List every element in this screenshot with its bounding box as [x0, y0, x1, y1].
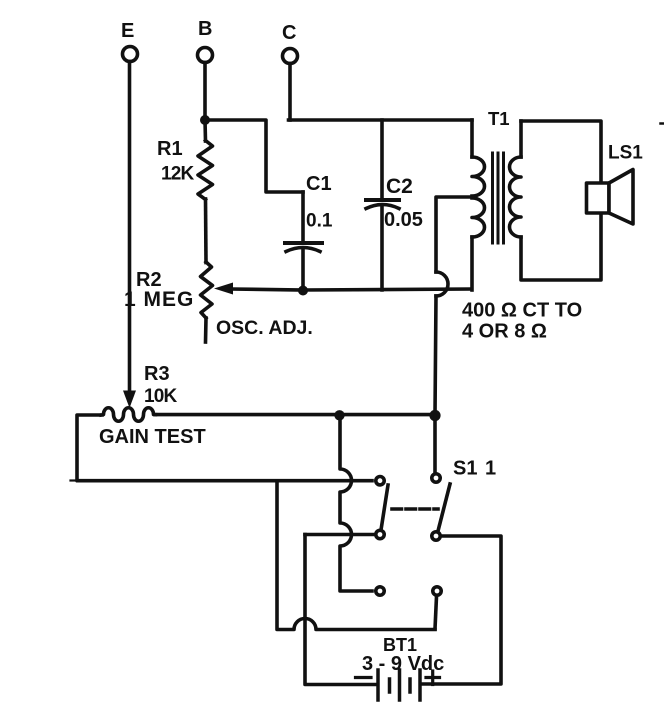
svg-text:R3: R3	[144, 363, 170, 385]
T1 core	[493, 153, 504, 243]
svg-text:C: C	[282, 22, 296, 44]
svg-text:B: B	[198, 18, 212, 40]
S1 contact bottom-right	[433, 587, 441, 595]
wire top rail	[289, 118, 473, 122]
scan speck right edge	[661, 122, 664, 125]
wire secondary loop	[521, 121, 601, 280]
T1 secondary winding	[510, 157, 522, 237]
T1 primary winding bottom half	[472, 198, 484, 237]
svg-text:400 Ω CT TO: 400 Ω CT TO	[462, 300, 582, 322]
R2 wiper arrow	[214, 283, 233, 295]
resistor R1	[157, 138, 213, 200]
svg-text:1: 1	[485, 458, 496, 480]
capacitor C2	[366, 120, 423, 290]
wire main rail R3 to S1	[155, 413, 435, 417]
wire CT node to top-right contact	[433, 415, 437, 472]
S1 contact middle-left	[376, 530, 384, 538]
wire C down to top rail	[288, 64, 292, 121]
T1 primary bottom lead to bottom rail	[470, 237, 474, 290]
wire B to node	[203, 63, 207, 121]
svg-text:4 OR 8 Ω: 4 OR 8 Ω	[462, 321, 547, 343]
svg-text:1 MEG: 1 MEG	[124, 288, 194, 311]
wire R2 bottom stub	[204, 318, 208, 342]
wire E to R3 wiper	[128, 62, 132, 394]
wire B node to C1	[205, 120, 303, 192]
svg-text:12K: 12K	[161, 164, 195, 185]
speaker LS1	[587, 143, 644, 225]
svg-text:10K: 10K	[144, 386, 178, 407]
svg-text:T1: T1	[488, 108, 510, 129]
node B junction dot	[200, 115, 210, 125]
arrowhead R3 wiper	[123, 391, 136, 409]
svg-text:R1: R1	[157, 138, 183, 160]
wire bottom rail	[303, 289, 471, 290]
potentiometer R2	[124, 262, 213, 318]
wire middle-right to battery plus	[421, 536, 501, 684]
node junction dot left	[334, 410, 344, 420]
svg-text:0.05: 0.05	[384, 209, 423, 231]
terminal B	[198, 18, 213, 63]
terminal C	[282, 22, 298, 64]
S1 mechanical link dashed	[392, 507, 438, 511]
svg-text:GAIN TEST: GAIN TEST	[99, 426, 206, 448]
svg-text:E: E	[121, 20, 134, 42]
svg-text:OSC. ADJ.: OSC. ADJ.	[216, 317, 313, 339]
capacitor C1	[285, 173, 333, 291]
wire R3 left side down	[77, 415, 372, 481]
wire middle-left contact down to battery minus	[305, 535, 377, 685]
svg-text:C1: C1	[306, 173, 332, 195]
S1 contact top-right	[432, 474, 440, 482]
S1 left arm	[381, 485, 388, 530]
T1 primary winding top half	[472, 157, 484, 196]
T1 primary top lead	[470, 120, 474, 157]
wire middle-left contact	[305, 533, 373, 537]
T1 secondary top lead	[519, 121, 523, 157]
S1 contact top-left	[376, 477, 384, 485]
wire bottom-right contact down	[435, 597, 437, 630]
potentiometer R3	[99, 363, 206, 448]
svg-text:S1: S1	[453, 458, 477, 480]
node junction dot right	[429, 410, 440, 421]
svg-text:C2: C2	[386, 175, 413, 198]
node C1 bottom junction dot	[298, 286, 308, 296]
wire wiper to bottom rail	[231, 289, 303, 290]
S1 right arm	[438, 484, 450, 531]
svg-text:0.1: 0.1	[306, 211, 333, 232]
S1 contact bottom-left	[376, 587, 384, 595]
wire R1 to R2	[204, 199, 208, 263]
wire S1 left pole vertical with hops	[340, 415, 372, 591]
wire CT down to S1	[435, 296, 436, 415]
battery BT1	[356, 635, 445, 700]
svg-text:LS1: LS1	[608, 143, 643, 164]
wire CT hop over bottom rail	[436, 272, 448, 296]
T1 center tap wire	[436, 197, 473, 272]
scan tick left of GAIN TEST corner	[71, 479, 77, 481]
wire R1 top lead	[203, 120, 207, 141]
wire lower return with hop	[277, 481, 435, 630]
terminal E	[121, 20, 138, 62]
svg-text:BT1: BT1	[383, 635, 417, 655]
S1 contact middle-right	[432, 532, 440, 540]
